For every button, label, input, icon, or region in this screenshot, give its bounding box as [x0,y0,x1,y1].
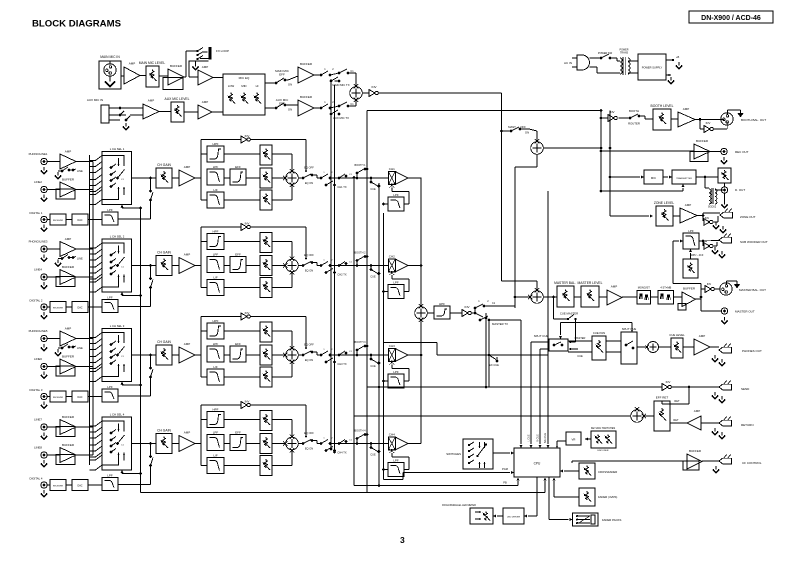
svg-text:3: 3 [400,535,405,545]
channel 4 digital wire to switch [118,484,151,486]
potentiometer MASTER BAL [543,296,557,298]
channel 2 gain amp [172,265,179,267]
channel 4 fader [388,437,395,450]
svg-text:LIF: LIF [213,453,218,457]
channel 3 eq input rail [200,317,202,378]
svg-text:SGD02: SGD02 [708,206,717,209]
channel 3 wire selector to gain [132,354,157,356]
channel 3 eq pot high [260,322,272,342]
svg-text:AMP: AMP [184,431,191,435]
channel 4 eq LPF [207,435,224,451]
svg-text:AMP: AMP [184,253,191,257]
svg-text:ROCA/PARALLEL LED METER: ROCA/PARALLEL LED METER [442,504,476,507]
svg-text:AMP: AMP [683,107,690,111]
channel 3 digital wire to switch [118,395,151,397]
channel 1 eq pot mid [260,168,272,188]
connector AUX MIC IN jack [87,98,130,130]
svg-text:AMP: AMP [65,327,72,331]
svg-text:LPF: LPF [393,193,399,197]
svg-text:MASTER LEVEL: MASTER LEVEL [578,281,603,285]
channel 2 dac box [72,302,88,313]
svg-text:40Hz - 4CF: 40Hz - 4CF [691,254,704,257]
wire send bus [367,386,662,388]
wire master mix bus vertical [501,93,503,281]
op-amp mic AMP U1 [124,67,140,84]
channel 1 digital select switch [149,199,152,202]
wire main mic to sum [355,73,357,85]
svg-text:LPF: LPF [393,458,399,462]
svg-text:MAIN MIC TX: MAIN MIC TX [332,83,349,87]
wire digital sel bus [140,208,142,493]
channel 1 eq pot high [260,145,272,165]
svg-text:FX LOOP: FX LOOP [216,49,229,53]
svg-text:LPF: LPF [393,370,399,374]
channel 4 eq pot high [260,411,272,431]
channel 2 wire amp to selector [76,248,93,250]
op-amp master AMP [599,296,607,298]
svg-text:DAC: DAC [77,219,82,222]
svg-text:LINE2: LINE2 [34,180,42,184]
connector SUB WOOFER OUT jack [719,237,732,243]
channel 2 eq pot low [260,278,272,298]
wire subwoofer feed [672,241,674,284]
channel 4 eq input rail [200,405,202,466]
channel 1 digital lpf [102,212,118,225]
svg-text:POWER SUPPLY: POWER SUPPLY [642,66,663,70]
channel 2 eq pot mid [260,256,272,276]
svg-text:CH3 TX: CH3 TX [337,362,346,366]
svg-text:INV: INV [371,85,376,89]
channel 2 fader lpf feed [391,275,393,279]
svg-text:PGM: PGM [502,467,508,471]
channel 2 eq LPF [207,257,224,273]
svg-text:CUE: CUE [577,354,583,358]
svg-text:AMP: AMP [184,342,191,346]
channel 1 selector bottom arrow [121,205,124,208]
channel 4 eq bypass inverter INV [201,404,241,406]
svg-text:LPF: LPF [213,252,219,256]
svg-text:AMP: AMP [148,99,155,103]
svg-text:BOOTH 1: BOOTH 1 [355,164,367,167]
svg-text:DAC: DAC [77,485,82,488]
inverter INV mic out [362,92,369,94]
svg-text:SPLIT CUE: SPLIT CUE [622,327,637,331]
connector BOOTH BAL OUT xlr [721,113,733,125]
svg-text:CF CONTROL: CF CONTROL [742,461,762,465]
svg-text:ON: ON [288,108,292,112]
svg-text:AMP: AMP [65,237,72,241]
channel 3 selector bottom arrow [121,382,124,385]
svg-text:DAC: DAC [77,307,82,310]
svg-text:AMP: AMP [699,334,706,338]
svg-text:CUE: CUE [370,365,376,368]
channel 4 selector inputs fan [90,413,132,471]
svg-text:REC OUT: REC OUT [735,150,749,154]
block SPLIT CUE 2 [606,327,648,364]
svg-text:EQ OFF: EQ OFF [304,253,314,257]
transformer POWER TRANS [617,49,638,76]
channel 2 digital wire to switch [118,306,151,308]
channel 3 fader lpf feed [391,365,393,369]
channel 1 cue switch [370,177,381,191]
potentiometer CROSSFADER [579,463,595,479]
switch MAIN MIC EFF [265,69,298,87]
svg-text:BUFFER: BUFFER [62,355,75,359]
channel 1 eq LIF [201,199,207,201]
potentiometer CUE PAN [592,336,606,360]
channel 2 eq LIF [201,287,207,289]
svg-text:DIGITAL 1: DIGITAL 1 [30,211,43,215]
svg-text:EFF RET: EFF RET [656,396,669,400]
wire channel out bus [420,178,422,307]
ground master xlr [725,281,727,285]
block 4 ST x MB [651,286,674,305]
wire data bus to cpu [547,191,549,444]
wire cue bus left [531,341,549,343]
channel 3 dac box [72,391,88,402]
channel 4 eq EFF filter [230,435,246,451]
channel 3 booth switch [355,341,369,356]
svg-text:HPF: HPF [439,302,445,306]
svg-text:RECEIVER: RECEIVER [53,486,64,488]
wire crossfader feed bus [383,213,385,480]
svg-text:AMP: AMP [202,65,209,69]
wire [184,111,198,113]
switch contacts aux mic TX [320,101,356,120]
wire cpu to fader packs [548,477,550,520]
channel 1 phono/line switch [55,167,83,179]
svg-text:KEY/ADJ SWITCHES: KEY/ADJ SWITCHES [591,427,616,430]
wire master outs [696,298,702,300]
svg-text:EQ ON: EQ ON [305,269,313,273]
potentiometer MAIN MIC LEVEL [146,66,159,87]
svg-text:LIF: LIF [213,275,218,279]
svg-text:EFF: EFF [235,252,241,256]
op-amp buffer aux mic 2 [298,100,314,116]
channel 1 lpf out wire [384,203,389,205]
svg-text:D. OUT: D. OUT [735,188,745,192]
channel 4 receiver box [50,480,66,491]
svg-text:HPF: HPF [213,229,219,233]
svg-text:AUX MIC TX: AUX MIC TX [333,116,349,120]
svg-text:CH4 TX: CH4 TX [337,451,346,455]
svg-text:HPF: HPF [213,319,219,323]
svg-text:BUFFER: BUFFER [696,139,709,143]
svg-text:EQ ON: EQ ON [305,447,313,451]
filter master HPF [434,306,450,319]
connector D.OUT [721,187,727,193]
svg-text:R CUE: R CUE [537,434,540,442]
connector PHONES OUT jack [710,346,719,348]
svg-text:CH GAIN: CH GAIN [157,429,171,433]
op-amp master BUFFER [674,296,683,298]
channel 3 post fader LPF [388,374,404,388]
svg-text:EQ OFF: EQ OFF [304,166,314,170]
channel 2 selector bottom arrow [121,292,124,295]
channel 3 wire amp to selector [76,338,93,340]
svg-text:L CH SEL 4: L CH SEL 4 [110,413,125,417]
channel 4 eq on/off switch [298,431,321,451]
svg-text:HPF: HPF [213,407,219,411]
wire into MIC EQ [212,111,223,113]
svg-text:EQ OFF: EQ OFF [304,343,314,347]
switch CUE MASTER [552,296,633,344]
svg-text:ENCODER: ENCODER [598,450,609,452]
svg-text:BOOTH 2: BOOTH 2 [355,252,367,255]
connector MAIN MIC IN [99,55,124,89]
ground fx loop [195,61,197,63]
wire PGM step [402,473,404,480]
svg-text:AUX MIC LEVEL: AUX MIC LEVEL [165,97,190,101]
svg-text:MIC EQ: MIC EQ [239,76,250,80]
potentiometer FADER 4VRS [579,488,595,506]
channel 3 gain amp [172,354,179,356]
channel 2 phono/line switch [55,255,83,267]
svg-text:L CH SEL 3: L CH SEL 3 [110,324,125,328]
connector REC OUT [710,151,721,153]
channel 2 wire selector to gain [132,265,157,267]
svg-text:TRANS: TRANS [620,52,629,55]
channel 1 gain box CH GAIN [156,168,172,188]
svg-text:MID: MID [241,84,246,88]
svg-text:MASTER BAL.: MASTER BAL. [554,281,576,285]
svg-text:BOOTH 4: BOOTH 4 [355,430,367,433]
svg-text:BUFFER: BUFFER [300,95,313,99]
channel 4 dac box [72,480,88,491]
svg-text:CH2 TX: CH2 TX [337,273,346,277]
channel 1 selector contacts [110,166,113,169]
svg-text:BUFFER: BUFFER [62,178,75,182]
channel 2 digital select switch [149,286,152,289]
svg-text:BUFFER: BUFFER [62,415,75,419]
wire crossfader to cpu [564,470,579,472]
channel 2 cue switch [370,264,381,278]
svg-text:CUE PAN: CUE PAN [593,331,605,335]
svg-text:LINE: LINE [77,346,83,350]
channel 2 fader amp [395,259,408,272]
channel 4 line buffer [60,448,76,463]
channel 4 gain box CH GAIN [156,434,172,454]
channel 2 eq sum wires [272,241,292,243]
channel 2 eq input rail [200,227,202,288]
svg-text:ROUTER: ROUTER [628,122,640,126]
op-amp BUFFER main mic [168,69,184,85]
switch EX CUE [488,354,491,357]
potentiometer subwoofer freq [683,259,698,278]
inverter subwoofer INV [699,240,719,243]
svg-text:LINE: LINE [77,257,83,261]
channel 4 eq pot mid [260,434,272,454]
channel 2 selector contacts [110,254,113,257]
channel 1 tx contacts [320,172,353,189]
channel 4 fader lpf feed [391,453,393,457]
channel 4 eq sum wires [272,419,292,421]
MIC EQ block [223,74,265,115]
channel 3 fader [388,349,395,362]
channel 3 eq HPF [201,330,207,332]
channel 4 lpf out wire [384,469,389,471]
svg-text:LPF: LPF [393,280,399,284]
svg-text:TRANSMITTER: TRANSMITTER [676,177,692,180]
power supply box POWER SUPPLY [638,54,666,80]
channel 4 cue switch [370,442,381,456]
svg-text:DN-X900 / ACD-46: DN-X900 / ACD-46 [701,15,761,22]
channel 3 phono/line switch [55,344,83,356]
svg-text:MASTER: MASTER [575,336,586,340]
channel 2 booth switch [355,252,369,267]
channel 1 phono amp [60,154,76,169]
channel 2 gain box CH GAIN [156,256,172,276]
svg-text:CH3: CH3 [389,344,395,348]
channel 2 post fader LPF [388,285,404,299]
channel 4 selector bottom arrow [121,470,124,473]
wire mic tx bus left [330,79,332,449]
svg-text:LPF: LPF [107,208,113,212]
svg-text:CH1: CH1 [389,167,395,171]
channel 3 digital select switch [149,376,152,379]
svg-text:BOOTH 3: BOOTH 3 [355,341,367,344]
svg-text:LIF: LIF [213,365,218,369]
channel 1 gain amp [172,177,179,179]
wire eff return mix bus [354,415,631,417]
svg-text:BUFFER: BUFFER [300,62,313,66]
channel 1 receiver box [50,214,66,225]
summing node mic mix [350,87,363,100]
svg-text:AMP: AMP [694,409,701,413]
filter subwoofer LPF [683,233,699,249]
wire PGM to cpu [403,472,510,474]
svg-text:LPF: LPF [688,229,694,233]
svg-text:LPF: LPF [213,430,219,434]
channel 1 fader [388,172,395,185]
svg-text:DIGITAL 4: DIGITAL 4 [30,477,43,481]
wire to FX loop [184,76,186,78]
svg-text:CH1 TX: CH1 TX [337,185,346,189]
svg-text:MAIN MIC IN: MAIN MIC IN [100,55,120,59]
svg-text:DIGITAL 3: DIGITAL 3 [30,388,43,392]
svg-text:CUE: CUE [370,188,376,191]
svg-text:INV: INV [666,380,671,384]
svg-text:PHONO/LINE1: PHONO/LINE1 [29,152,48,156]
channel 4 wire selector to gain [132,443,157,445]
svg-text:MASTER BAL. OUT: MASTER BAL. OUT [739,288,766,292]
inverter booth INV [601,117,608,119]
FX LOOP switches and jack [186,47,229,61]
svg-text:CUE LEVEL: CUE LEVEL [669,333,685,337]
channel 2 line buffer [60,270,76,285]
switch MASTER TX contacts [474,300,515,326]
wire dout feed [609,111,611,178]
inverter zone INV [704,219,710,226]
op-amp aux mic AMP [143,104,159,119]
svg-text:INV: INV [706,121,711,125]
wire from upper bus into master sum top [502,280,538,282]
potentiometer EFF RET [654,401,670,431]
svg-text:FADER (4VRS): FADER (4VRS) [598,495,617,499]
svg-text:+B: +B [676,55,680,59]
svg-text:ON: ON [288,83,292,87]
block MONO/ST [622,286,651,305]
svg-text:LPF: LPF [213,165,219,169]
channel 1 eq HPF [201,153,207,155]
wire PB bus [354,485,518,487]
channel 1 digital wire to switch [118,218,151,220]
svg-text:HI: HI [256,84,259,88]
svg-text:INV: INV [707,282,712,286]
svg-text:VR: VR [572,438,576,442]
channel 3 selector inputs fan [90,324,132,382]
wire [140,75,146,77]
wire bottom long bus [141,492,546,494]
channel 4 digital select switch [149,464,152,467]
svg-text:CROSSFADER: CROSSFADER [598,470,617,474]
transformer digital out [705,183,725,209]
svg-text:EFF: EFF [235,430,241,434]
wire return riser [688,387,690,404]
wire zone feed [609,177,611,216]
channel 3 phono amp [60,331,76,346]
svg-text:BUFFER: BUFFER [689,449,702,453]
svg-text:L CH SEL 2: L CH SEL 2 [110,235,125,239]
connector MASTER BAL OUT xlr [720,283,732,295]
channel 2 receiver box [50,302,66,313]
svg-text:LPF: LPF [107,473,113,477]
wire [159,75,168,77]
svg-text:SUB WOOFER OUT: SUB WOOFER OUT [740,240,768,244]
svg-text:LED DRIVER: LED DRIVER [507,517,521,519]
wire [663,176,668,178]
channel 2 eq pot high [260,233,272,253]
summing node booth sum [531,142,544,155]
svg-text:LPF: LPF [107,385,113,389]
channel 3 wire to fader [349,354,388,356]
block MIC box [644,170,663,184]
channel 1 eq LPF [207,169,224,185]
channel 3 eq pot low [260,367,272,387]
wire cue bus right [540,348,549,350]
channel 3 selector contacts [110,343,113,346]
svg-text:LINE7: LINE7 [34,418,42,422]
svg-text:MAIN MIC LEVEL: MAIN MIC LEVEL [139,61,166,65]
svg-text:LINE8: LINE8 [34,446,42,450]
svg-text:AC IN: AC IN [564,61,572,65]
svg-text:BUFFER: BUFFER [62,265,75,269]
wire booth bus right vertical [600,111,602,192]
channel 1 post fader LPF [388,197,404,211]
channel 4 tx contacts [320,438,353,455]
cpu box CPU [514,448,560,477]
connector AC IN plug [564,55,617,73]
wire switches to cpu [493,452,510,454]
svg-text:HPF: HPF [213,142,219,146]
switch MAST ON/OFF [500,125,537,135]
svg-text:PHONES OUT: PHONES OUT [742,349,762,353]
connector MASTER OUT rca [721,308,727,314]
wire return jack [701,422,719,424]
wire cue L bus [353,178,355,486]
wire [213,77,223,79]
svg-text:AMP: AMP [202,100,209,104]
svg-text:RET: RET [674,399,680,403]
model label box DN-X900 / ACD-46 [689,11,773,23]
wire bus split cue left [485,313,487,387]
block VR [566,432,581,445]
svg-text:AMP: AMP [611,285,618,289]
channel 3 digital lpf [102,389,118,402]
channel 2 tx contacts [320,260,353,277]
svg-text:CH GAIN: CH GAIN [157,251,171,255]
wire mic mix to master bus [379,92,502,94]
